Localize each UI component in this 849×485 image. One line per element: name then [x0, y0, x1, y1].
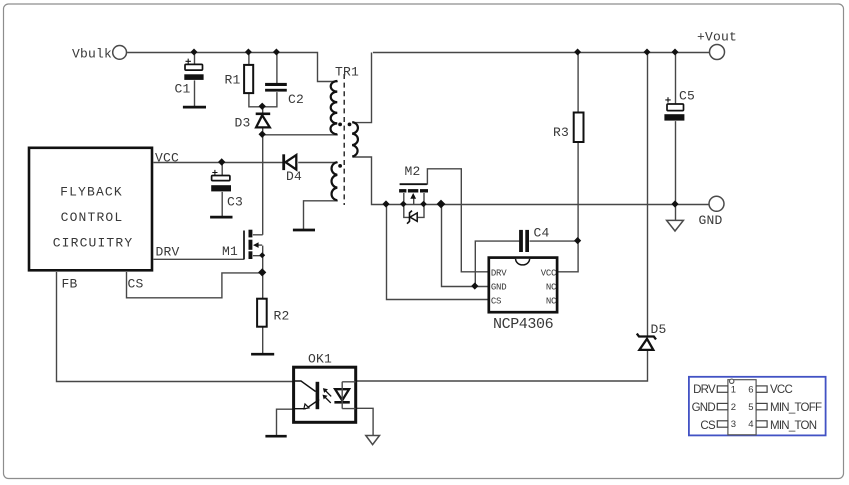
svg-text:M1: M1	[222, 244, 238, 259]
svg-text:4: 4	[748, 419, 753, 430]
svg-text:C5: C5	[679, 88, 695, 103]
svg-text:3: 3	[731, 419, 736, 430]
svg-text:Vbulk: Vbulk	[72, 47, 112, 62]
svg-text:CS: CS	[128, 277, 144, 292]
svg-text:FB: FB	[62, 277, 78, 292]
svg-text:DRV: DRV	[693, 384, 716, 396]
svg-text:OK1: OK1	[308, 352, 332, 367]
svg-text:CIRCUITRY: CIRCUITRY	[53, 235, 134, 250]
svg-text:CS: CS	[700, 420, 716, 432]
svg-text:C2: C2	[288, 92, 304, 107]
svg-text:VCC: VCC	[541, 268, 557, 278]
svg-text:GND: GND	[692, 402, 716, 414]
svg-text:VCC: VCC	[770, 384, 792, 396]
svg-text:VCC: VCC	[155, 151, 179, 166]
svg-text:CS: CS	[491, 296, 501, 306]
svg-text:C3: C3	[227, 194, 243, 209]
svg-text:DRV: DRV	[491, 268, 507, 278]
svg-text:TR1: TR1	[335, 64, 359, 79]
svg-text:C4: C4	[534, 225, 550, 240]
svg-text:NC: NC	[546, 296, 557, 306]
svg-text:R3: R3	[553, 125, 569, 140]
svg-text:NC: NC	[546, 282, 557, 292]
svg-text:CONTROL: CONTROL	[61, 210, 124, 225]
svg-text:R2: R2	[274, 308, 290, 323]
svg-text:MIN_TON: MIN_TON	[770, 420, 817, 432]
svg-text:NCP4306: NCP4306	[493, 316, 554, 333]
svg-text:R1: R1	[225, 73, 241, 88]
svg-text:+Vout: +Vout	[697, 30, 737, 45]
svg-text:GND: GND	[699, 213, 723, 228]
svg-text:D4: D4	[286, 169, 302, 184]
svg-text:5: 5	[748, 402, 753, 413]
svg-text:FLYBACK: FLYBACK	[60, 184, 123, 199]
svg-text:2: 2	[731, 402, 736, 413]
svg-text:GND: GND	[491, 282, 506, 292]
svg-text:DRV: DRV	[156, 244, 180, 259]
svg-text:M2: M2	[405, 164, 421, 179]
svg-text:D3: D3	[235, 116, 251, 131]
svg-text:D5: D5	[651, 322, 667, 337]
svg-text:C1: C1	[175, 82, 191, 97]
svg-text:1: 1	[731, 384, 736, 395]
svg-text:MIN_TOFF: MIN_TOFF	[770, 402, 822, 414]
svg-text:6: 6	[748, 384, 753, 395]
